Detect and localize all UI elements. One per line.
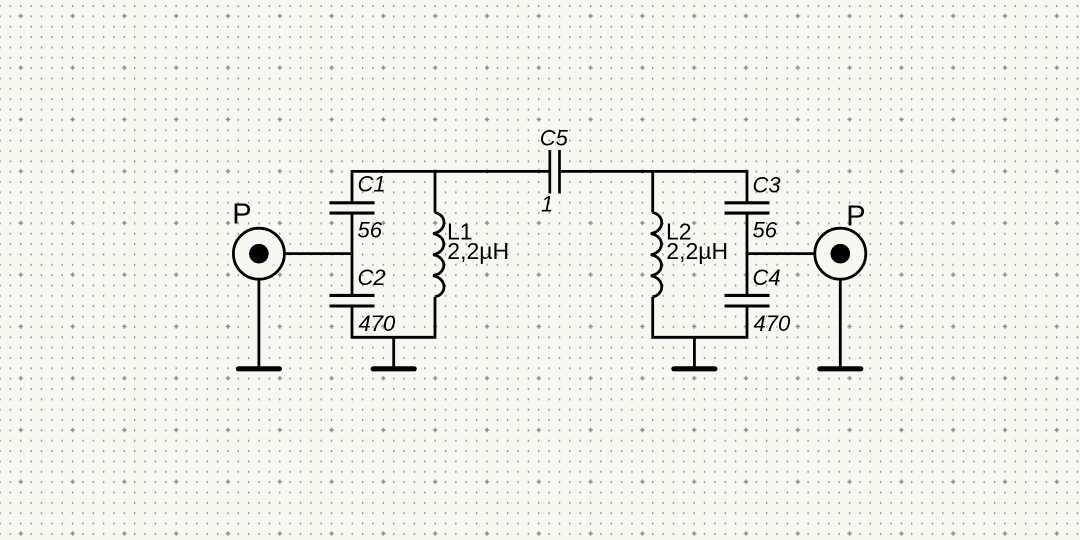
connector P (right) — [815, 228, 866, 279]
wire: right tank ground stub — [693, 337, 696, 369]
wire: left P connector to node — [259, 252, 352, 255]
svg-text:C1: C1 — [358, 172, 386, 197]
ground (right tank) — [674, 366, 715, 371]
inductor L1 — [433, 213, 444, 297]
wire: L1 top lead — [434, 171, 437, 212]
svg-text:P: P — [232, 199, 251, 231]
svg-text:56: 56 — [753, 217, 778, 242]
svg-text:2,2µH: 2,2µH — [666, 238, 728, 264]
ground (left P) — [238, 366, 279, 371]
capacitor C1 — [330, 203, 375, 213]
wire top-left: C1 column corner to C5 left plate — [352, 171, 550, 202]
wire: left tank ground stub — [392, 337, 395, 369]
svg-text:470: 470 — [754, 311, 791, 336]
wire: L2 top lead — [651, 171, 654, 212]
wire: left node column between C1 and C2 — [351, 213, 354, 295]
wire: right P down lead — [839, 279, 842, 369]
svg-text:C2: C2 — [358, 265, 386, 290]
svg-text:C5: C5 — [540, 125, 569, 150]
svg-text:2,2µH: 2,2µH — [447, 238, 509, 264]
svg-text:P: P — [846, 200, 865, 232]
capacitor C4 — [725, 295, 770, 306]
ground (left tank) — [373, 366, 414, 371]
inductor L2 — [651, 213, 662, 297]
capacitor C2 — [330, 295, 375, 306]
svg-text:56: 56 — [358, 217, 383, 242]
wire: bottom of left tank C2 to L1 — [352, 297, 435, 337]
wire: bottom of right tank L2 to C4 — [653, 297, 747, 337]
svg-text:1: 1 — [541, 192, 553, 217]
ground (right P) — [820, 366, 861, 371]
connector P (left) — [233, 228, 284, 279]
wire: right node to right P connector — [747, 252, 840, 255]
capacitor C3 — [725, 203, 770, 213]
wire top-right: C5 right plate to C3 column corner — [560, 171, 748, 202]
capacitor C5 — [550, 150, 560, 194]
svg-text:C4: C4 — [753, 265, 781, 290]
wire: left P down lead — [257, 279, 260, 369]
svg-text:C3: C3 — [753, 173, 782, 198]
svg-text:470: 470 — [359, 311, 396, 336]
wire: right node column between C3 and C4 — [746, 213, 749, 295]
